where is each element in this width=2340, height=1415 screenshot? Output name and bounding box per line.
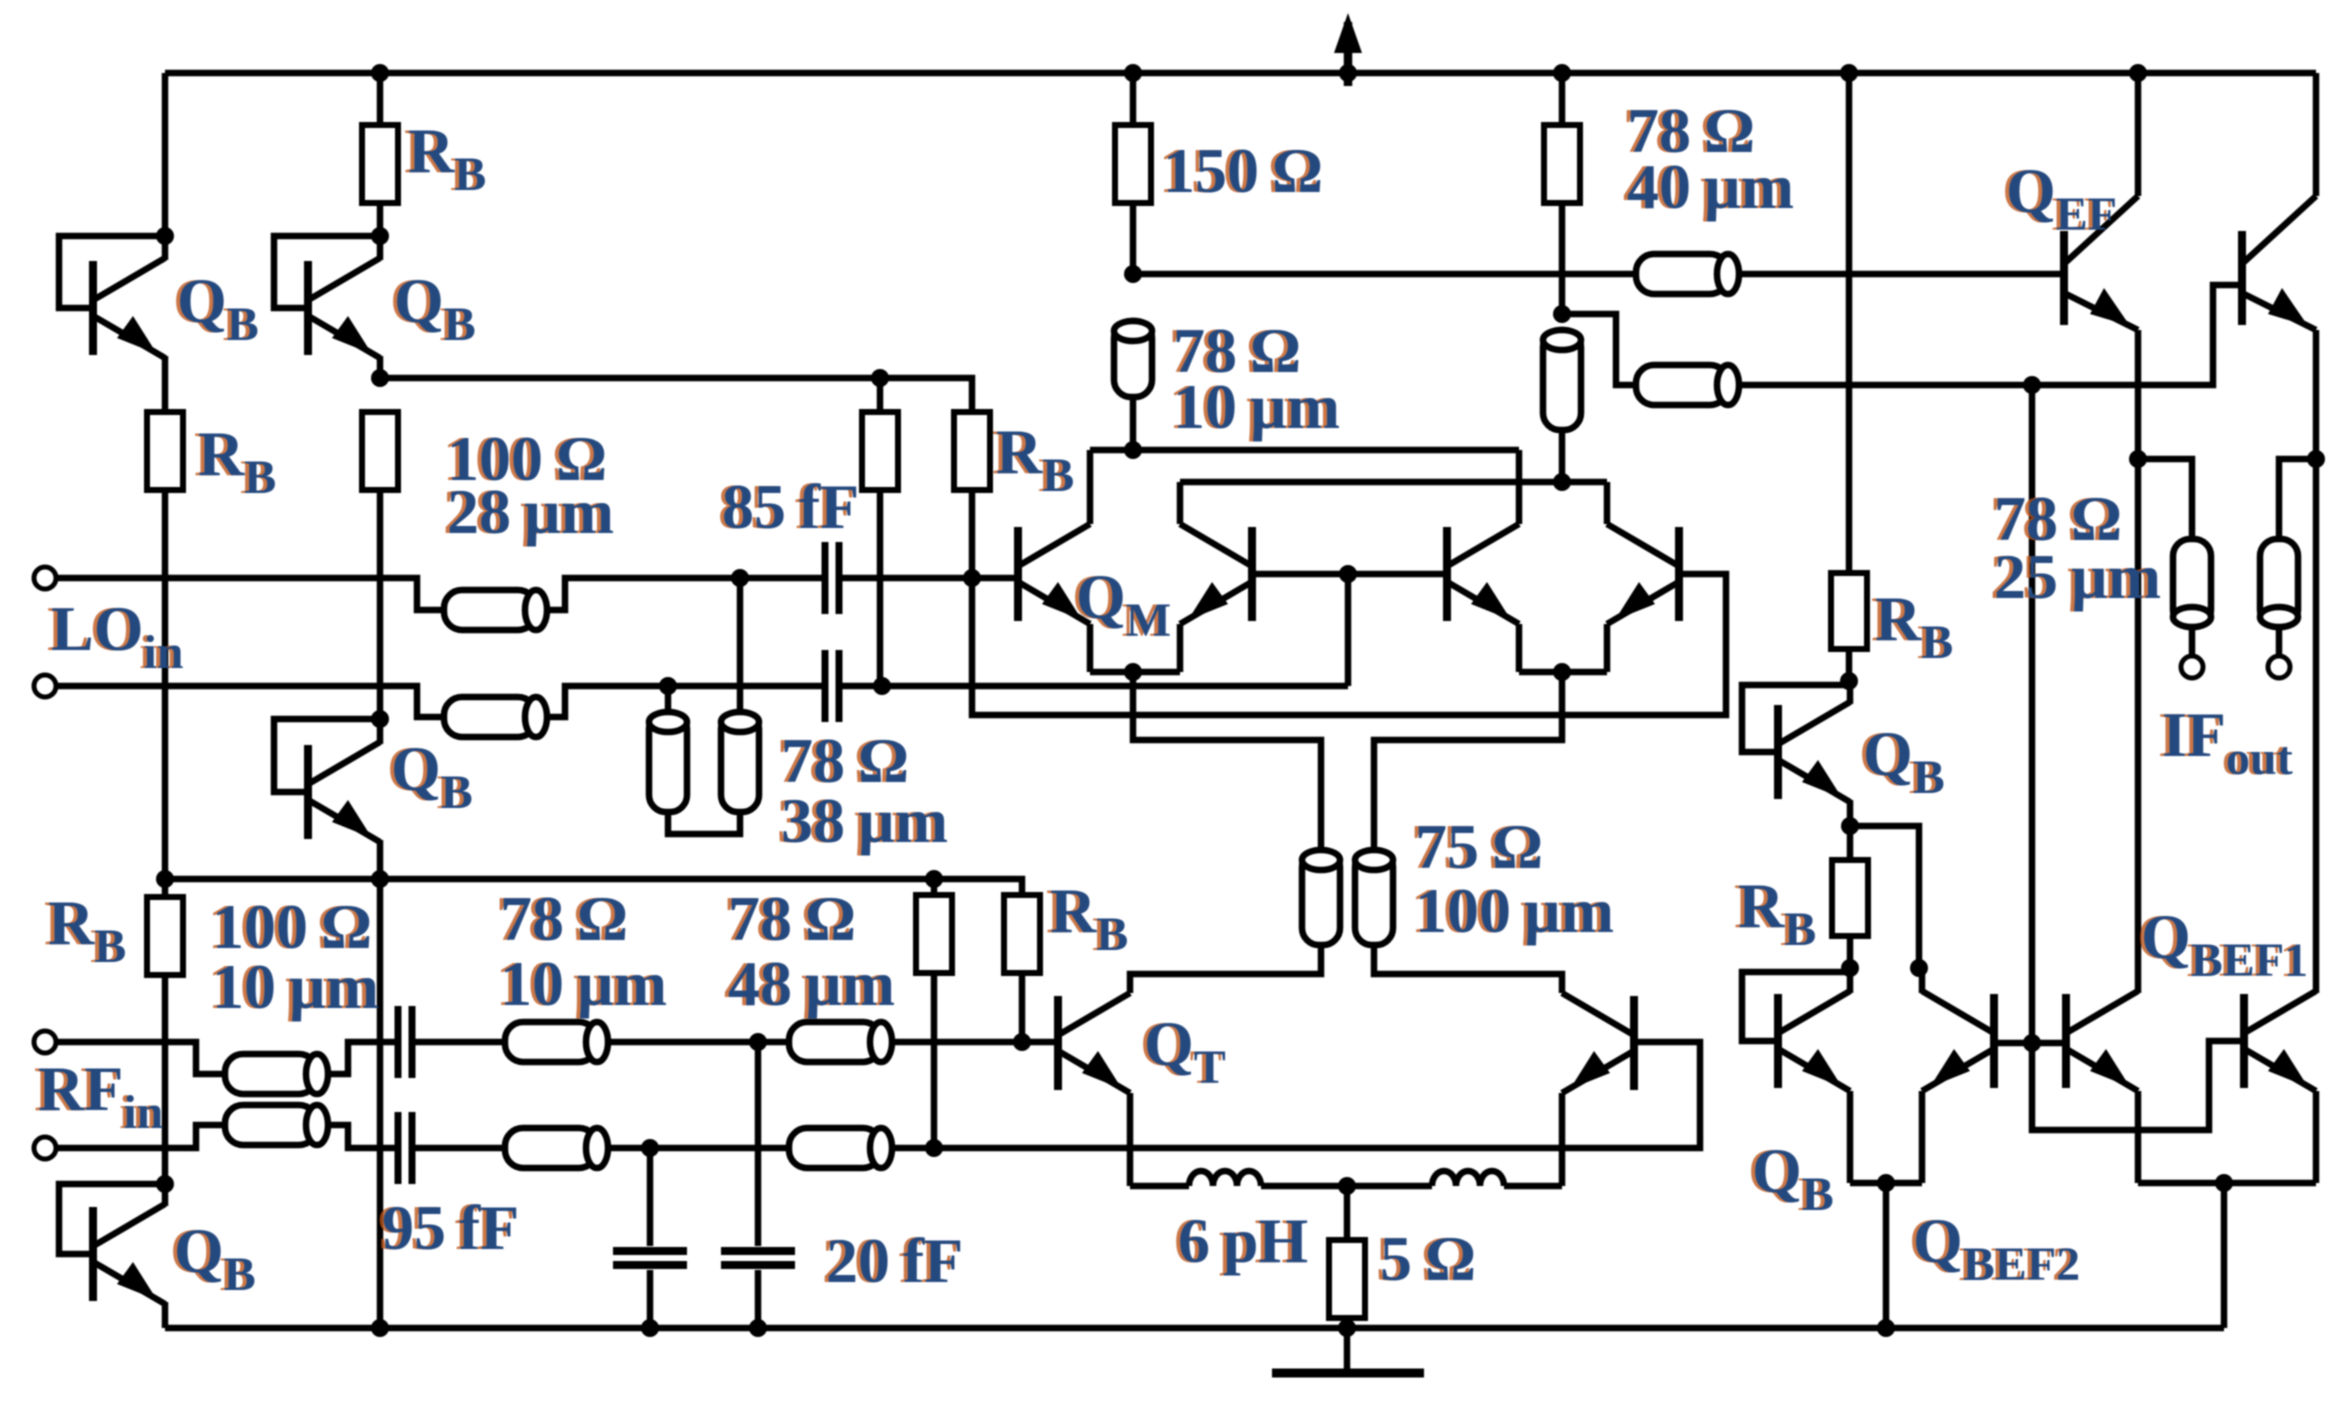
wire left emitter to TL75a	[1133, 672, 1321, 850]
transistor QBEF2 left (mirrored)	[1922, 991, 1994, 1091]
wire QB2 collector stub	[377, 236, 384, 260]
wire jog to TL25a	[2138, 459, 2192, 539]
wire TL25a to IFout+	[2189, 627, 2196, 656]
wire RB bottom to QB2 node	[377, 203, 384, 236]
label 78ohm 38um	[781, 725, 948, 856]
svg-text:38 µm: 38 µm	[781, 785, 948, 856]
wire RF- to QT2 base	[892, 1042, 1700, 1148]
junction dot QB6 collector node	[1841, 959, 1859, 977]
label 100ohm 28um	[447, 423, 614, 547]
wire 5ohm to rail	[1344, 1318, 1351, 1328]
transmission line 100ohm 28um LO-	[444, 697, 547, 737]
label 78ohm 10um	[1173, 315, 1340, 442]
wire rail to RB right-mid	[1846, 73, 1853, 573]
wire inductor a to center	[1261, 1183, 1347, 1190]
wire QM1-QM2 emitter bus	[1090, 669, 1180, 676]
wire TL25b to IFout-	[2276, 627, 2283, 656]
junction dot QEF2 emitter x2316	[2307, 450, 2325, 468]
wire QBEF1r emitter drop	[2313, 1091, 2320, 1183]
wire rail to ground symbol	[1344, 1328, 1351, 1371]
wire jog to TL25b	[2279, 459, 2316, 539]
wire QB2 base loop	[274, 236, 380, 308]
label 78ohm 48um RF	[728, 883, 895, 1019]
transistor QB4 (diode-connected)	[93, 1204, 165, 1304]
svg-text:48 µm: 48 µm	[728, 948, 895, 1019]
capacitor 85fF (LO-)	[825, 650, 839, 722]
wire stub LO+ to TL38b	[737, 578, 744, 712]
wire RF- to 20fF cap a	[647, 1148, 654, 1246]
junction dot node D (QEF1 base line)	[1124, 265, 1142, 283]
wire QB6 collector stub	[1847, 968, 1854, 993]
svg-text:25 µm: 25 µm	[1994, 541, 2161, 612]
transistor QB3 (diode-connected)	[308, 742, 380, 842]
wire bias bus A	[380, 378, 972, 412]
wire TL75b to QT2 collector	[1374, 945, 1562, 993]
svg-text:78 Ω: 78 Ω	[728, 883, 856, 954]
ground rail (bottom bus)	[165, 1325, 2224, 1332]
wire RF RB left down to RF-	[931, 973, 938, 1148]
transmission line 100ohm 10um RF-	[225, 1105, 328, 1145]
resistor 78ohm 40um	[1544, 125, 1580, 203]
junction dot LO- to inner bases	[1339, 565, 1357, 583]
terminal RFin-	[34, 1137, 56, 1159]
wire RF+ after TL	[328, 1042, 399, 1074]
wire bias bus B	[165, 879, 1022, 895]
junction dot bus B x1562	[1553, 473, 1571, 491]
wire QBEF2 bus to rail	[1883, 1183, 1890, 1328]
wire QBEF2-QBEF1 base tie	[1998, 1040, 2062, 1047]
svg-text:28 µm: 28 µm	[447, 476, 614, 547]
transmission line 100ohm 28um LO+	[444, 590, 547, 630]
wire RB to QB5 node	[1846, 649, 1853, 681]
transmission line 78ohm 38um (b)	[721, 712, 759, 812]
wire QBEF2l emitter drop	[1919, 1091, 1926, 1183]
wire center to inductor b	[1347, 1183, 1432, 1190]
junction dot rail x380	[371, 1319, 389, 1337]
wire RF- TL10b to TL48b	[608, 1145, 789, 1152]
transistor QB2 (diode-connected)	[308, 258, 380, 358]
junction dot LO+ x740	[731, 569, 749, 587]
wire QB6 emitter drop	[1847, 1091, 1854, 1183]
wire rail to QB1 collector node	[162, 73, 169, 236]
wire x380 column to rail	[377, 879, 384, 1328]
capacitor 20fF (a)	[613, 1251, 687, 1265]
resistor RB (RF bias left)	[916, 895, 952, 973]
transmission line 75ohm 100um (b)	[1355, 850, 1393, 945]
collector bus B (QM2+QM4)	[1180, 479, 1607, 486]
transmission line 78ohm 40um vertical	[1543, 330, 1581, 430]
junction dot QB5 collector node	[1840, 672, 1858, 690]
wire 20fF a to ground rail	[647, 1270, 654, 1328]
wire left column to QB4	[162, 975, 169, 1184]
wire QB1 collector stub	[162, 236, 169, 260]
wire QB3 collector stub	[377, 719, 384, 744]
transmission line 100ohm 10um RF+	[225, 1054, 328, 1094]
wire LOin+ lead	[56, 578, 444, 610]
wire base column to QBEF1 right base	[2032, 1041, 2242, 1130]
transmission line 78ohm 25um (a)	[2173, 539, 2211, 627]
wire QBEF1 bus to rail	[2221, 1183, 2228, 1328]
junction dot emitter bus right	[1553, 663, 1571, 681]
wire LO- riser	[1345, 574, 1352, 686]
wire stub bias to RF RB left	[931, 879, 938, 895]
junction dot RF+ x758	[749, 1033, 767, 1051]
junction dot rail x650	[641, 1319, 659, 1337]
wire QM4 collector riser	[1604, 482, 1611, 524]
transistor QB1 (diode-connected)	[93, 258, 165, 358]
resistor RB (RF bias right)	[1004, 895, 1040, 973]
transistor QEF2	[2242, 196, 2316, 330]
junction dot QBEF2 emitter bus	[1877, 1174, 1895, 1192]
wire QEF2 collector riser	[2313, 73, 2320, 196]
wire center to 5ohm	[1344, 1186, 1351, 1240]
wire left column RB to lower RB	[162, 490, 169, 897]
wire RF RB right down to RF+	[1019, 973, 1026, 1042]
resistor 100ohm 28um	[362, 412, 398, 490]
junction dot lower line x2032	[2023, 376, 2041, 394]
wire QB3 emitter stub	[377, 840, 384, 879]
svg-text:10 µm: 10 µm	[212, 951, 379, 1022]
wire QM4 emitter drop	[1604, 624, 1611, 672]
transmission line 78ohm 10um RF-	[505, 1128, 608, 1168]
wire LO+ after TL	[547, 578, 824, 610]
transmission line 78ohm 48um RF-	[789, 1128, 892, 1168]
wire QEF1 collector riser	[2135, 73, 2142, 196]
wire RF- after TL	[328, 1125, 399, 1148]
junction dot bus A x1133	[1124, 441, 1142, 459]
wire inductor b to QT2 emitter	[1504, 1183, 1562, 1190]
wire QBEF1 emitter bus	[2138, 1180, 2316, 1187]
junction dot QB3 collector node	[371, 710, 389, 728]
junction dot emitter bus left	[1124, 663, 1142, 681]
wire LO- cap to riser	[841, 683, 1348, 690]
transmission line 78ohm 48um RF+	[789, 1022, 892, 1062]
junction dot base tie	[2023, 1034, 2041, 1052]
transistor QM4 (mirrored)	[1607, 524, 1679, 624]
wire QB1 emitter stub	[162, 356, 169, 412]
wire LOin- lead	[56, 686, 444, 717]
resistor RB (left column low)	[147, 897, 183, 975]
wire stub to TL38a	[665, 686, 672, 712]
svg-text:10 µm: 10 µm	[1173, 371, 1340, 442]
wire RF+ to QT1 base	[892, 1039, 1054, 1046]
junction dot RF- x650	[641, 1139, 659, 1157]
resistor 150ohm	[1115, 125, 1151, 203]
junction dot LO- x668	[659, 677, 677, 695]
wire QB4 emitter to rail	[162, 1302, 169, 1328]
svg-text:6 pH: 6 pH	[1178, 1205, 1308, 1276]
junction dot node B (QB2 collector)	[371, 227, 389, 245]
wire node E jog to lower TL	[1562, 314, 1636, 385]
wire RF+ to 20fF cap b	[755, 1042, 762, 1246]
transistor QEF1	[2064, 196, 2138, 330]
transistor QM2 (mirrored)	[1180, 524, 1252, 624]
junction dot bias B x165	[156, 870, 174, 888]
junction dot RF+ x1022	[1013, 1033, 1031, 1051]
wire QB5 emitter stub	[1847, 800, 1854, 826]
collector bus A (QM1+QM3)	[1090, 447, 1519, 454]
transmission line 78ohm 10um (vertical)	[1114, 321, 1152, 397]
capacitor 95fF (RF-)	[398, 1112, 412, 1184]
transistor QBEF1 right	[2244, 991, 2316, 1091]
svg-text:20 fF: 20 fF	[826, 1225, 963, 1296]
wire QM1 emitter drop	[1087, 624, 1094, 672]
wire RF- cap to TL10b	[411, 1145, 505, 1152]
wire QB2 emitter stub	[377, 356, 384, 378]
junction dot rail x1886	[1877, 1319, 1895, 1337]
wire QM3 emitter drop	[1516, 624, 1523, 672]
terminal RFin+	[34, 1031, 56, 1053]
junction dot rail x1347	[1338, 1319, 1356, 1337]
junction dot rail x1849	[1840, 64, 1858, 82]
junction dot rail x1133	[1124, 64, 1142, 82]
wire RF+ TL10 to TL48	[608, 1039, 789, 1046]
terminal IFout+	[2181, 656, 2203, 678]
wire 150ohm to node	[1130, 203, 1137, 274]
wire QB4 base loop	[59, 1184, 165, 1254]
label 78ohm 40um	[1627, 95, 1794, 222]
wire right emitter to TL75b	[1374, 672, 1562, 850]
wire TL75a to QT1 collector	[1130, 945, 1321, 993]
wire QM inner bases	[1256, 571, 1443, 578]
capacitor 95fF (RF+)	[398, 1006, 412, 1078]
wire QB6 base loop	[1742, 972, 1849, 1041]
junction dot node F (QB5 emitter)	[1841, 817, 1859, 835]
svg-text:78 Ω: 78 Ω	[500, 883, 628, 954]
svg-text:75 Ω: 75 Ω	[1415, 811, 1543, 882]
junction dot bias B x380	[371, 870, 389, 888]
resistor RB (right low)	[1832, 860, 1868, 936]
junction dot QB4 collector node	[156, 1175, 174, 1193]
resistor RB (LO bias right)	[954, 412, 990, 490]
svg-text:95 fF: 95 fF	[382, 1192, 519, 1263]
junction dot QBEF2 left collector	[1910, 959, 1928, 977]
junction dot bias B x934	[925, 870, 943, 888]
wire 100ohm down to QB3 node	[377, 490, 384, 719]
label 75ohm 100um	[1415, 811, 1614, 946]
transistor QBEF1 left	[2066, 991, 2138, 1091]
wire QM2 emitter drop	[1177, 624, 1184, 672]
junction dot RF- x934	[925, 1139, 943, 1157]
transistor QB5 (diode-connected)	[1778, 702, 1850, 802]
label 78ohm 25um	[1994, 483, 2161, 612]
wire 78ohm40 to node E	[1559, 203, 1566, 314]
junction dot supply arrow	[1339, 64, 1357, 82]
wire LO- after TL	[547, 686, 824, 717]
resistor 5ohm	[1329, 1240, 1365, 1318]
wire RFin- lead	[56, 1125, 225, 1148]
resistor RB (top, x380)	[362, 125, 398, 203]
wire stub bias to left RB	[877, 378, 884, 412]
wire LO+ feed to QM4 base	[972, 574, 1726, 715]
wire TL38 shorting U	[668, 812, 740, 834]
resistor RB (right mid)	[1831, 573, 1867, 649]
junction dot rail x758	[749, 1319, 767, 1337]
terminal LOin+	[34, 567, 56, 589]
resistor RB (LO bias left)	[862, 412, 898, 490]
junction dot node C (QB2 emitter / bias bus)	[371, 369, 389, 387]
transistor QB6 (diode-connected)	[1778, 991, 1850, 1091]
wire RF+ cap to TL10	[411, 1039, 505, 1046]
wire RB LO-right down to LO+	[969, 490, 976, 578]
terminal IFout-	[2268, 656, 2290, 678]
wire upper TL to QEF1 base	[1739, 271, 2060, 278]
wire RFin+ lead	[56, 1042, 225, 1074]
wire rail to RB top at x380	[377, 73, 384, 125]
junction dot inductor center	[1338, 1177, 1356, 1195]
wire QB4 collector stub	[162, 1184, 169, 1206]
terminal LOin-	[34, 675, 56, 697]
wire QEF2 emitter column	[2313, 330, 2320, 993]
wire QBEF2l collector stub	[1919, 968, 1926, 993]
resistor RB (left column mid)	[147, 412, 183, 490]
transistor QM3	[1447, 524, 1519, 624]
junction dot node A (QB1 collector)	[156, 227, 174, 245]
transmission line 75ohm 100um (a)	[1302, 850, 1340, 945]
transmission line 78ohm 25um (b)	[2260, 539, 2298, 627]
junction dot node E	[1553, 305, 1571, 323]
svg-text:40 µm: 40 µm	[1627, 151, 1794, 222]
wire QB5 collector stub	[1847, 681, 1854, 704]
wire RB LO-left down to LO-	[877, 490, 884, 686]
wire QT1 emitter drop	[1127, 1093, 1134, 1186]
transistor QM1	[1018, 524, 1090, 624]
svg-text:5 Ω: 5 Ω	[1380, 1223, 1476, 1294]
inductor 6pH (b)	[1432, 1171, 1504, 1186]
wire QB1 base loop	[59, 236, 165, 308]
junction dot rail x1562	[1553, 64, 1571, 82]
wire QBEF1l emitter drop	[2135, 1091, 2142, 1183]
transmission line 78ohm 38um (a)	[649, 712, 687, 812]
wire QB5 base loop	[1742, 685, 1849, 752]
wire rail to 78ohm40um	[1559, 73, 1566, 125]
junction dot QBEF1 emitter bus	[2215, 1174, 2233, 1192]
capacitor 85fF (LO+)	[825, 542, 839, 614]
wire QM3-QM4 emitter bus	[1519, 669, 1607, 676]
wire base column x2032	[2029, 385, 2036, 1043]
wire QEF1 emitter column	[2135, 330, 2142, 993]
wire QM1 collector riser	[1087, 450, 1094, 524]
capacitor 20fF (b)	[721, 1251, 795, 1265]
wire node F bypass to QBEF2 collector	[1850, 826, 1919, 968]
junction dot LO- x882	[873, 677, 891, 695]
junction dot LO+ x972	[963, 569, 981, 587]
ground	[1272, 1369, 1424, 1378]
wire QM2 collector riser	[1177, 482, 1184, 524]
wire node F to RB right low	[1847, 826, 1854, 860]
power rail (top supply bus)	[165, 70, 2316, 77]
wire rail to 150ohm	[1130, 73, 1137, 125]
label 78ohm 10um RF	[500, 883, 667, 1019]
wire QBEF2 emitter bus	[1850, 1180, 1922, 1187]
wire QM3 collector riser	[1516, 450, 1523, 524]
svg-text:85 fF: 85 fF	[722, 471, 859, 542]
wire TL10 to bus A	[1130, 397, 1137, 450]
wire QT2 emitter drop	[1559, 1093, 1566, 1186]
supply arrow (VCC)	[1334, 13, 1362, 86]
junction dot rail x380	[371, 64, 389, 82]
svg-text:100 µm: 100 µm	[1415, 875, 1614, 946]
wire RB right low to QB6 node	[1847, 936, 1854, 968]
inductor 6pH (a)	[1189, 1171, 1261, 1186]
transistor QT2 (mirrored)	[1562, 993, 1634, 1093]
transistor QT1	[1058, 993, 1130, 1093]
svg-text:150 Ω: 150 Ω	[1163, 135, 1323, 206]
junction dot QEF1 emitter x2138	[2129, 450, 2147, 468]
transmission line upper (QEF1 base)	[1636, 254, 1739, 294]
wire node D to upper TL	[1133, 271, 1636, 278]
wire lower TL to QEF2 base	[1739, 285, 2242, 385]
transmission line 78ohm 10um RF+	[505, 1022, 608, 1062]
svg-text:10 µm: 10 µm	[500, 948, 667, 1019]
wire LO+ cap to QM1 base	[841, 575, 1014, 582]
wire QB3 base loop	[274, 719, 380, 792]
junction dot bias bus A at RB	[871, 369, 889, 387]
label 100ohm 10um RF	[212, 891, 379, 1022]
wire QT1 emitter to inductor	[1130, 1183, 1189, 1190]
junction dot rail x2138	[2129, 64, 2147, 82]
transmission line lower (QEF2 base)	[1636, 365, 1739, 405]
wire 20fF b to ground rail	[755, 1270, 762, 1328]
wire TL40 to bus B	[1559, 430, 1566, 482]
